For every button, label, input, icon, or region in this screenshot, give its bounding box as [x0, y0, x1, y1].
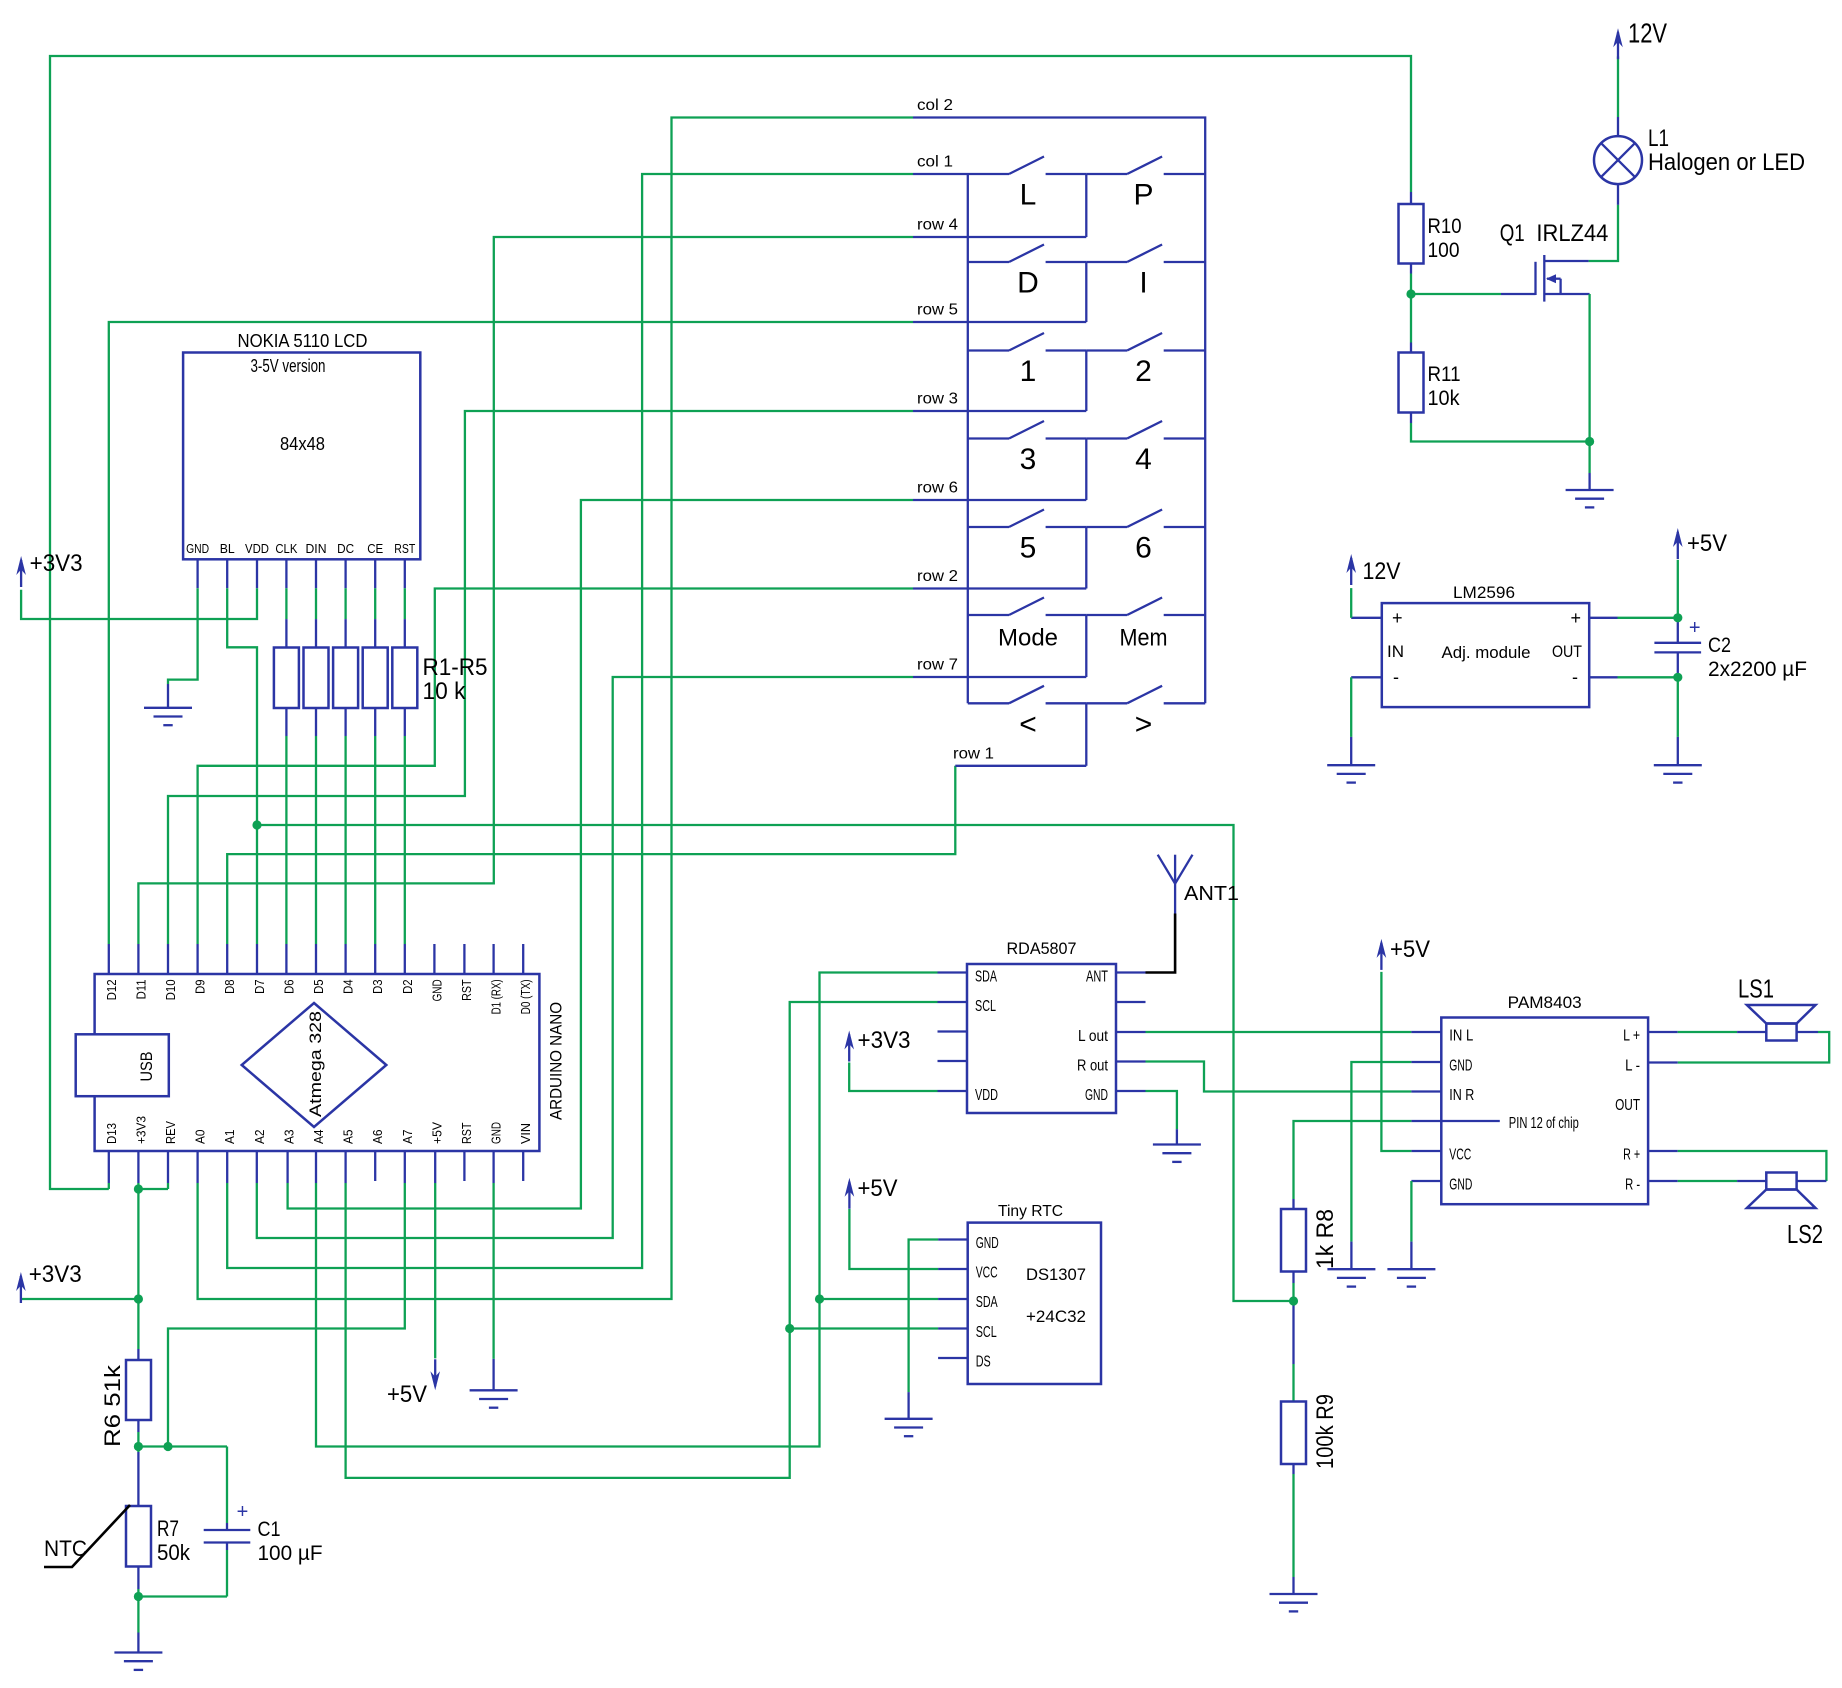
Tiny RTC module — [968, 1203, 1101, 1384]
switch pair arrows — [968, 686, 1205, 766]
power +5V at C2 — [1673, 528, 1727, 559]
resistor R10 — [1399, 204, 1462, 264]
svg-text:5: 5 — [1020, 532, 1037, 565]
junction node A7 tap — [163, 1442, 172, 1451]
svg-text:+5V: +5V — [1687, 530, 1727, 557]
wire net R10 gate R11 — [1411, 264, 1536, 353]
svg-text:Halogen or LED: Halogen or LED — [1648, 149, 1805, 176]
svg-text:+3V3: +3V3 — [30, 550, 83, 577]
svg-text:OUT: OUT — [1552, 643, 1582, 661]
wire net LCD VDD to +3V3 — [21, 559, 257, 619]
svg-text:R6 51k: R6 51k — [100, 1364, 125, 1447]
svg-text:R +: R + — [1623, 1147, 1640, 1164]
svg-text:R10: R10 — [1428, 215, 1462, 238]
wire net PAM GND2 to ground — [1411, 1181, 1441, 1269]
keypad row 7 line — [913, 676, 1086, 678]
wire stub RDA right nc — [1116, 1001, 1146, 1003]
wire net LCD CE R4 to D3 — [374, 559, 376, 974]
svg-text:NOKIA 5110 LCD: NOKIA 5110 LCD — [238, 331, 368, 351]
svg-text:ANT: ANT — [1086, 969, 1108, 986]
svg-text:row 6: row 6 — [917, 480, 958, 497]
wire net RTC VCC to +5V — [849, 1209, 967, 1269]
svg-text:row 2: row 2 — [917, 568, 958, 585]
wire net LCD CLK R1 to D6 — [285, 559, 287, 974]
svg-text:D2: D2 — [400, 979, 415, 994]
svg-text:+5V: +5V — [429, 1122, 444, 1144]
svg-text:+5V: +5V — [1390, 936, 1430, 963]
wire net RDA VDD to +3V3 — [849, 1063, 967, 1092]
svg-text:GND: GND — [186, 541, 209, 556]
junction node R8/R9 — [1289, 1296, 1298, 1305]
wire net row4 to D11 — [138, 237, 913, 974]
svg-text:2: 2 — [1135, 355, 1152, 388]
svg-text:RDA5807: RDA5807 — [1007, 940, 1077, 958]
svg-text:DS: DS — [976, 1354, 991, 1371]
junction node R6/R7 — [134, 1442, 143, 1451]
svg-text:row 7: row 7 — [917, 657, 958, 674]
svg-text:12V: 12V — [1363, 558, 1401, 585]
svg-text:VDD: VDD — [245, 541, 269, 556]
svg-text:OUT: OUT — [1615, 1097, 1640, 1114]
keypad row 4 line — [913, 236, 1086, 238]
svg-text:CLK: CLK — [275, 541, 297, 556]
svg-text:D11: D11 — [133, 979, 148, 999]
wire stub RDA left pin4 — [938, 1060, 968, 1062]
ground at MOSFET source — [1566, 490, 1614, 507]
wire net row3 to D10 — [168, 411, 913, 974]
ground at C2 — [1654, 765, 1702, 782]
wire net D13 to R10 lamp control — [50, 56, 1411, 1189]
transistor Q1 IRLZ44 MOSFET — [1500, 220, 1609, 302]
svg-text:RST: RST — [459, 979, 474, 1001]
capacitor C1 — [204, 1501, 323, 1565]
svg-text:A7: A7 — [400, 1130, 415, 1145]
wire net RDA ANT to antenna — [1116, 884, 1175, 973]
wire net LM2596 IN+ to 12V — [1351, 588, 1382, 618]
svg-text:LM2596: LM2596 — [1453, 584, 1515, 602]
wire net row5 to D12 — [109, 322, 913, 974]
keypad row 1 line — [955, 765, 1086, 767]
svg-text:+: + — [237, 1501, 249, 1523]
svg-text:3-5V version: 3-5V version — [251, 356, 326, 376]
wire net source/R11 to ground — [1411, 294, 1590, 490]
svg-text:REV: REV — [163, 1121, 178, 1144]
wire net GND pin to ground — [492, 1151, 494, 1390]
svg-text:DS1307: DS1307 — [1026, 1266, 1086, 1284]
svg-text:A0: A0 — [193, 1130, 208, 1145]
ground at Arduino GND — [470, 1390, 518, 1407]
svg-text:D5: D5 — [311, 979, 326, 994]
svg-text:VIN: VIN — [518, 1123, 533, 1144]
ground at RDA5807 — [1153, 1145, 1201, 1162]
wire net LS1 loop — [1648, 1032, 1829, 1063]
svg-text:+5V: +5V — [387, 1381, 427, 1408]
ground at LM2596 IN- — [1327, 765, 1375, 782]
svg-text:PIN 12 of chip: PIN 12 of chip — [1509, 1115, 1579, 1132]
wire stub RST bottom — [463, 1151, 465, 1181]
svg-text:ARDUINO NANO: ARDUINO NANO — [547, 1002, 566, 1120]
svg-text:GND: GND — [489, 1122, 504, 1144]
wire net row1 to D8 — [227, 766, 955, 974]
svg-text:P: P — [1133, 179, 1153, 212]
wire net LM2596 IN- to ground — [1351, 677, 1382, 765]
svg-text:SDA: SDA — [976, 1294, 998, 1311]
wire stub VIN — [522, 1151, 524, 1181]
loudspeaker LS2 — [1747, 1173, 1823, 1250]
svg-text:D8: D8 — [222, 979, 237, 994]
svg-text:84x48: 84x48 — [280, 434, 325, 454]
PAM8403 amplifier module — [1441, 994, 1648, 1204]
junction node gate/R11 — [1406, 289, 1415, 298]
svg-text:100k R9: 100k R9 — [1312, 1394, 1339, 1469]
resistor R11 — [1399, 353, 1461, 413]
svg-text:1k R8: 1k R8 — [1312, 1209, 1339, 1269]
resistor R8 — [1281, 1209, 1339, 1272]
svg-text:BL: BL — [220, 541, 235, 556]
svg-text:Tiny RTC: Tiny RTC — [998, 1203, 1063, 1220]
wire net +5V pin arrow — [434, 1151, 436, 1358]
resistor R3 — [333, 648, 358, 709]
resistor R2 — [304, 648, 329, 709]
power +5V at Tiny RTC — [845, 1175, 898, 1209]
svg-text:D1 (RX): D1 (RX) — [489, 979, 504, 1014]
junction node R7 bottom — [134, 1592, 143, 1601]
power +5V at PAM8403 — [1377, 936, 1430, 970]
power 12V at LM2596 — [1346, 554, 1400, 585]
svg-text:A5: A5 — [341, 1130, 356, 1145]
svg-text:+: + — [1689, 617, 1701, 639]
svg-text:2x2200 µF: 2x2200 µF — [1708, 658, 1807, 681]
svg-text:D: D — [1017, 267, 1039, 300]
resistor R7 NTC — [126, 1506, 191, 1567]
svg-text:IN: IN — [1387, 643, 1404, 661]
wire net R9 bottom to ground — [1292, 1464, 1294, 1594]
NOKIA 5110 LCD module — [183, 331, 420, 559]
svg-text:+3V3: +3V3 — [133, 1116, 148, 1144]
resistor R4 — [363, 648, 388, 709]
svg-text:VCC: VCC — [1449, 1147, 1471, 1164]
wire net +3V3 pin / REV / R6 — [21, 1151, 168, 1360]
svg-text:Mem: Mem — [1120, 625, 1168, 652]
svg-text:<: < — [1019, 708, 1037, 741]
keypad row 6 line — [913, 499, 1086, 501]
junction node OUT-/C2 — [1673, 673, 1682, 682]
svg-text:50k: 50k — [157, 1540, 191, 1565]
resistor R1 — [274, 648, 299, 709]
wire net RTC GND to ground — [909, 1240, 968, 1419]
svg-text:row 1: row 1 — [953, 745, 994, 762]
svg-text:4: 4 — [1135, 443, 1152, 476]
wire stub A6 — [374, 1151, 376, 1181]
svg-text:12V: 12V — [1628, 18, 1667, 49]
svg-text:CE: CE — [367, 541, 383, 556]
LM2596 buck module — [1382, 584, 1589, 707]
junction node +3V3 rail at R6 — [134, 1294, 143, 1303]
wire net PAM VCC to +5V — [1381, 972, 1441, 1151]
ground at R9 — [1270, 1594, 1318, 1611]
wire net row7 to A2 — [257, 677, 913, 1238]
wire net R6 bottom / R7 / C1 / A7 junction — [138, 1420, 227, 1530]
svg-text:IN R: IN R — [1449, 1087, 1474, 1104]
wire stub D0 TX — [522, 944, 524, 974]
wire stub RST top — [463, 944, 465, 974]
wire net PAM PIN12 to R8 — [1294, 1121, 1442, 1209]
wire net LCD DIN R2 to D5 — [315, 559, 317, 974]
wire stub D1 RX — [492, 944, 494, 974]
svg-text:L out: L out — [1078, 1028, 1108, 1045]
svg-text:A4: A4 — [311, 1130, 326, 1145]
wire net R7 bottom / C1 bottom to ground — [138, 1543, 227, 1653]
switch pair Mode/Mem — [968, 598, 1205, 678]
svg-text:GND: GND — [976, 1235, 999, 1252]
svg-text:I: I — [1139, 267, 1147, 300]
wire net LS2 loop — [1648, 1151, 1826, 1181]
wire net RDA R out to PAM IN R — [1116, 1062, 1441, 1092]
svg-text:6: 6 — [1135, 532, 1152, 565]
svg-text:RST: RST — [394, 541, 415, 556]
svg-text:L -: L - — [1625, 1058, 1640, 1075]
svg-text:+5V: +5V — [858, 1175, 898, 1202]
svg-text:C1: C1 — [258, 1518, 281, 1541]
svg-text:col 1: col 1 — [917, 154, 953, 171]
lamp L1 — [1594, 125, 1805, 184]
svg-text:GND: GND — [1449, 1177, 1472, 1194]
wire net row6 to A3 — [288, 500, 913, 1209]
label R1-R5 10 k — [423, 654, 488, 705]
Arduino Nano module — [76, 974, 566, 1151]
svg-text:-: - — [1572, 667, 1578, 687]
svg-text:100: 100 — [1428, 239, 1460, 262]
svg-text:-: - — [1393, 667, 1399, 687]
svg-text:D0 (TX): D0 (TX) — [518, 979, 533, 1014]
svg-text:L1: L1 — [1648, 125, 1669, 152]
junction node SDA at RTC — [815, 1294, 824, 1303]
wire net lamp to MOSFET drain — [1544, 184, 1618, 261]
wire net LCD RST R5 to D2 — [404, 559, 406, 974]
svg-text:+: + — [1571, 608, 1582, 628]
keypad row 5 line — [913, 321, 1086, 323]
resistor R5 — [392, 648, 417, 709]
wire net RDA GND to ground — [1116, 1091, 1177, 1145]
wire net lamp to 12V — [1617, 56, 1619, 136]
keypad col 2 bus — [913, 118, 1205, 704]
power +3V3 at R6 — [16, 1261, 82, 1303]
svg-text:NTC: NTC — [44, 1536, 87, 1561]
svg-text:R7: R7 — [157, 1516, 179, 1541]
svg-text:A6: A6 — [370, 1130, 385, 1145]
svg-text:D3: D3 — [370, 979, 385, 994]
wire net col1 to A1 — [227, 174, 913, 1268]
svg-text:LS2: LS2 — [1787, 1219, 1823, 1249]
svg-text:SDA: SDA — [975, 969, 997, 986]
svg-text:IN L: IN L — [1449, 1028, 1473, 1045]
svg-text:C2: C2 — [1708, 634, 1731, 657]
svg-text:PAM8403: PAM8403 — [1508, 994, 1582, 1012]
wire net col2 to A0 — [198, 118, 913, 1300]
svg-text:D9: D9 — [193, 979, 208, 994]
svg-text:Atmega 328: Atmega 328 — [307, 1011, 325, 1117]
svg-text:100 µF: 100 µF — [258, 1542, 323, 1565]
svg-text:+24C32: +24C32 — [1026, 1308, 1086, 1326]
wire net LCD DC R3 to D4 — [344, 559, 346, 974]
svg-text:>: > — [1135, 708, 1153, 741]
junction node OUT+/C2 — [1673, 613, 1682, 622]
svg-text:Adj. module: Adj. module — [1442, 644, 1531, 662]
switch pair 5/6 — [968, 510, 1205, 589]
switch pair L/P — [1009, 157, 1205, 238]
svg-text:A1: A1 — [222, 1130, 237, 1145]
svg-text:D7: D7 — [252, 979, 267, 994]
svg-text:D13: D13 — [104, 1123, 119, 1144]
ground at PAM GND1 — [1327, 1269, 1375, 1286]
svg-text:10k: 10k — [1428, 387, 1460, 410]
resistor R6 — [100, 1360, 151, 1447]
svg-text:Q1: Q1 — [1500, 220, 1525, 247]
svg-text:D10: D10 — [163, 979, 178, 1000]
svg-text:RST: RST — [459, 1122, 474, 1144]
svg-text:SCL: SCL — [976, 1324, 997, 1341]
svg-text:DC: DC — [337, 541, 354, 556]
keypad col 1 bus — [913, 174, 1009, 703]
capacitor C2 — [1654, 617, 1807, 681]
svg-text:GND: GND — [429, 979, 444, 1001]
svg-text:A3: A3 — [281, 1130, 296, 1145]
switch pair 1/2 — [968, 333, 1205, 411]
junction node D7/BL branch — [252, 820, 261, 829]
svg-text:R out: R out — [1077, 1058, 1108, 1075]
svg-text:DIN: DIN — [306, 541, 327, 556]
switch pair D/I — [968, 245, 1205, 323]
svg-text:R -: R - — [1625, 1177, 1640, 1194]
svg-text:SCL: SCL — [975, 998, 996, 1015]
svg-text:10 k: 10 k — [423, 678, 467, 705]
junction node source/R11 — [1585, 437, 1594, 446]
svg-text:D4: D4 — [341, 979, 356, 994]
svg-text:row 5: row 5 — [917, 302, 958, 319]
junction node SCL at RTC — [785, 1324, 794, 1333]
power +3V3 at RDA5807 — [844, 1027, 910, 1062]
wire net LCD GND to ground — [168, 559, 198, 708]
NTC arrow — [44, 1505, 130, 1567]
svg-text:A2: A2 — [252, 1130, 267, 1145]
svg-text:R11: R11 — [1428, 363, 1461, 386]
svg-text:D6: D6 — [281, 979, 296, 994]
wire stub GND top — [433, 944, 435, 974]
svg-text:VCC: VCC — [976, 1265, 998, 1282]
wire net RDA L out to PAM IN L — [1116, 1031, 1441, 1033]
wire net LCD BL to D7 and R8 divider — [227, 559, 1293, 1301]
loudspeaker LS1 — [1738, 974, 1816, 1041]
ground at Tiny RTC — [885, 1419, 933, 1436]
svg-text:3: 3 — [1020, 443, 1037, 476]
wire net A5 I2C SCL — [346, 1002, 968, 1478]
wire net LM2596 OUT- to C2 ground — [1589, 652, 1678, 765]
wire net LM2596 OUT+ to C2 +5V — [1589, 560, 1678, 643]
svg-text:col 2: col 2 — [917, 97, 953, 114]
svg-text:1: 1 — [1020, 355, 1037, 388]
ground at PAM GND2 — [1387, 1269, 1435, 1286]
svg-text:GND: GND — [1085, 1087, 1108, 1104]
svg-text:ANT1: ANT1 — [1184, 883, 1239, 905]
wire net PAM GND1 to ground — [1351, 1062, 1441, 1269]
svg-text:R1-R5: R1-R5 — [423, 654, 488, 681]
power +5V arrow down at Arduino — [387, 1359, 440, 1408]
antenna ANT1 — [1158, 855, 1193, 884]
wire net A7 to NTC divider — [168, 1151, 405, 1447]
svg-text:GND: GND — [1449, 1058, 1472, 1075]
resistor R9 — [1281, 1394, 1339, 1469]
power +3V3 at LCD — [16, 550, 82, 587]
svg-text:L +: L + — [1623, 1028, 1640, 1045]
wire net row2 to D9 — [198, 589, 913, 975]
svg-text:row 4: row 4 — [917, 217, 958, 234]
wire stub RDA left pin3 — [938, 1030, 968, 1032]
keypad row 2 line — [913, 587, 1086, 589]
svg-text:L: L — [1020, 179, 1037, 212]
svg-text:LS1: LS1 — [1738, 974, 1774, 1004]
junction node +3V3/REV — [134, 1184, 143, 1193]
svg-text:+3V3: +3V3 — [858, 1027, 911, 1054]
svg-text:IRLZ44: IRLZ44 — [1536, 220, 1608, 247]
ground at R7/C1 — [114, 1653, 162, 1670]
svg-text:+: + — [1392, 608, 1403, 628]
RDA5807 FM radio module — [967, 940, 1116, 1113]
wire net A4 I2C SDA — [316, 973, 968, 1447]
ground at LCD — [144, 708, 192, 725]
svg-text:+3V3: +3V3 — [29, 1261, 82, 1288]
svg-text:row 3: row 3 — [917, 391, 958, 408]
svg-text:Mode: Mode — [998, 625, 1058, 652]
power 12V at lamp — [1613, 18, 1667, 60]
wire net R8/R9 junction — [1292, 1272, 1294, 1402]
wire stub RTC DS — [938, 1357, 968, 1359]
svg-text:USB: USB — [137, 1052, 156, 1082]
svg-text:VDD: VDD — [975, 1087, 998, 1104]
switch pair 3/4 — [968, 421, 1205, 500]
keypad row 3 line — [913, 410, 1086, 412]
svg-text:D12: D12 — [104, 979, 119, 1000]
